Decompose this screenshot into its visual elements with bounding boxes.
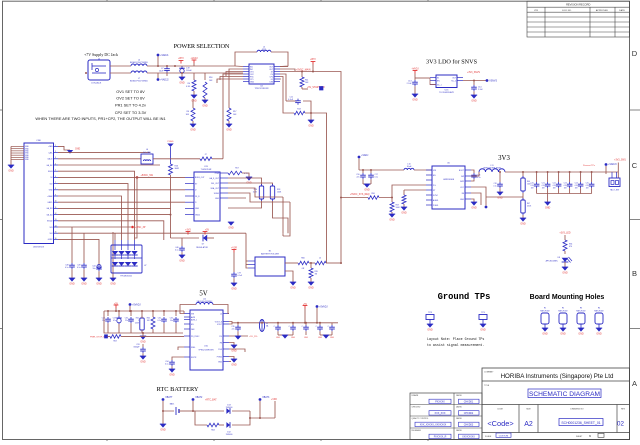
svg-text:C13: C13 [408,81,411,83]
svg-text:DEF: DEF [191,329,195,331]
svg-text:C17: C17 [375,174,378,176]
svg-text:10u: 10u [170,320,173,322]
svg-text:PR1 SET TO 4.2v: PR1 SET TO 4.2v [115,102,146,107]
svg-text:SDA_OUT: SDA_OUT [211,187,220,190]
svg-text:0.1u: 0.1u [493,185,496,187]
svg-text:SCH0001236_SHEET_01: SCH0001236_SHEET_01 [561,421,600,425]
svg-text:GND: GND [308,287,314,290]
svg-text:C: C [632,161,638,170]
svg-text:OUT: OUT [452,77,457,79]
svg-text:WHEN THERE ARE TWO INPUTS, PR1: WHEN THERE ARE TWO INPUTS, PR1+CP2, THE … [35,116,165,121]
svg-text:GA_ID2: GA_ID2 [46,164,52,167]
svg-text:10uH: 10uH [407,166,412,168]
svg-text:C21: C21 [542,183,545,185]
svg-text:0.1uF: 0.1uF [288,99,294,101]
svg-text:TPD4E05U06: TPD4E05U06 [120,276,132,278]
svg-text:C44: C44 [92,266,95,268]
svg-text:2.2uF: 2.2uF [478,89,484,91]
svg-text:COMPANY: COMPANY [484,370,494,373]
svg-text:BULB_OUT: BULB_OUT [195,177,205,179]
svg-text:+VADJ2: +VADJ2 [160,79,169,82]
svg-text:GND: GND [226,129,232,132]
svg-text:+3V3_LED: +3V3_LED [559,233,571,235]
svg-text:CN6: CN6 [36,140,41,142]
svg-text:0.1u: 0.1u [175,250,179,252]
svg-text:VIN: VIN [191,313,195,315]
svg-text:SCHEMATIC DIAGRAM: SCHEMATIC DIAGRAM [529,391,600,398]
svg-text:LTR: LTR [534,10,538,12]
svg-text:F2: F2 [266,323,268,325]
svg-text:J5: J5 [319,258,321,260]
svg-text:15: 15 [55,232,57,234]
svg-text:GND: GND [304,337,309,339]
svg-text:GND: GND [228,227,234,230]
svg-text:+B7V: +B7V [178,58,184,60]
svg-text:DRAWN: DRAWN [412,394,419,397]
svg-text:C16: C16 [356,174,359,176]
svg-text:L2: L2 [220,313,222,315]
svg-text:IN: IN [437,77,439,79]
svg-text:+CAN: +CAN [48,145,53,148]
svg-text:RELEASED: RELEASED [412,429,422,432]
svg-text:16V: 16V [575,187,579,189]
svg-text:R11: R11 [305,80,308,82]
svg-text:VOUT: VOUT [217,324,223,326]
svg-text:GND: GND [231,350,237,353]
svg-text:GND: GND [412,99,418,102]
svg-text:VBAT2: VBAT2 [195,396,203,399]
svg-text:HORIBA Instruments (Singapore): HORIBA Instruments (Singapore) Pte Ltd [501,373,614,380]
svg-text:LMR33630B: LMR33630B [443,179,455,181]
svg-text:3A: 3A [266,325,269,328]
svg-text:FB: FB [220,342,223,344]
svg-text:+RNC_3P: +RNC_3P [135,227,146,229]
svg-text:2: 2 [55,151,56,153]
svg-text:XXX_XXX: XXX_XXX [435,412,446,415]
svg-text:GND: GND [231,288,237,291]
svg-text:GND: GND [231,364,237,367]
svg-text:SIZE: SIZE [526,409,531,411]
svg-text:FSEL: FSEL [191,347,196,349]
svg-text:GND: GND [169,374,175,377]
svg-text:+5V: +5V [205,230,210,232]
svg-text:DATED: DATED [456,417,463,420]
svg-text:+5VDC_SW: +5VDC_SW [141,175,154,177]
svg-text:L6: L6 [146,149,149,151]
svg-text:J7: J7 [204,154,207,156]
svg-text:10K: 10K [147,320,151,322]
svg-text:C33: C33 [136,344,139,346]
svg-text:GND: GND [596,333,602,336]
svg-text:GND: GND [250,81,255,83]
svg-text:SW2: SW2 [460,181,464,183]
svg-text:+VADJ: +VADJ [411,68,418,71]
svg-text:BLM41PG471SN1D: BLM41PG471SN1D [130,62,148,64]
svg-text:+CAN2: +CAN2 [47,195,53,198]
svg-text:100K: 100K [396,207,401,209]
svg-text:16V: 16V [564,187,568,189]
svg-text:C11: C11 [290,97,293,99]
svg-text:16V: 16V [531,187,535,189]
svg-text:EN: EN [437,80,440,82]
svg-text:DATED: DATED [456,394,463,397]
svg-text:JXB74XXXX: JXB74XXXX [33,247,45,249]
svg-text:D12: D12 [227,432,230,434]
svg-text:R6: R6 [187,111,189,113]
svg-text:4.7u: 4.7u [541,185,544,187]
svg-text:D1_S: D1_S [195,196,200,198]
svg-text:GA_ID: GA_ID [47,158,53,161]
svg-text:C18: C18 [494,183,497,185]
svg-text:CHECKED: CHECKED [412,407,421,409]
svg-text:3V3 LDO for SNVS: 3V3 LDO for SNVS [426,59,478,66]
svg-text:VBATT: VBATT [165,396,173,399]
svg-text:CON-JACK: CON-JACK [91,82,102,85]
svg-text:GND: GND [542,333,548,336]
svg-text:1SS400: 1SS400 [226,407,233,409]
svg-text:R64: R64 [211,430,214,432]
svg-text:ST: ST [195,183,198,185]
svg-text:100uF: 100uF [186,70,192,72]
svg-text:0.6W: 0.6W [135,323,139,325]
svg-text:0.1u: 0.1u [477,177,481,179]
svg-text:TITLE: TITLE [484,385,490,387]
svg-text:C14: C14 [478,87,481,89]
svg-text:GND: GND [318,337,323,339]
svg-text:GND: GND [471,100,477,103]
svg-text:CAN2-: CAN2- [47,201,53,204]
svg-text:R67: R67 [527,203,530,205]
svg-text:D8: D8 [558,257,560,259]
svg-text:R66: R66 [527,181,530,183]
svg-text:C20: C20 [531,183,534,185]
svg-text:RTC BATTERY: RTC BATTERY [156,386,198,393]
svg-text:GND: GND [427,329,433,332]
svg-text:TLV70433DBVR: TLV70433DBVR [439,92,454,94]
svg-text:U10: U10 [204,346,209,348]
svg-text:SS/TR: SS/TR [191,357,197,359]
svg-text:0R: 0R [302,268,305,270]
svg-text:QUALITY CONTROL: QUALITY CONTROL [412,417,429,420]
svg-text:+5V_PG: +5V_PG [249,336,258,338]
svg-text:REV: REV [621,409,626,411]
svg-text:GND: GND [520,223,526,226]
svg-text:B: B [632,269,637,278]
svg-text:470: 470 [569,246,572,248]
svg-text:AVIN_1: AVIN_1 [191,318,197,321]
svg-text:Board Mounting Holes: Board Mounting Holes [530,294,605,301]
svg-text:+7V Supply DC Jack: +7V Supply DC Jack [84,52,118,57]
svg-text:300R: 300R [175,168,180,170]
svg-text:L10: L10 [407,164,410,166]
svg-text:GND: GND [25,159,30,161]
svg-text:3300pF: 3300pF [133,347,140,349]
svg-text:CUSTOM: CUSTOM [499,435,509,437]
svg-text:GND2: GND2 [48,239,53,241]
svg-text:R16: R16 [209,77,212,79]
svg-text:C49: C49 [77,265,80,267]
svg-text:1: 1 [55,145,56,147]
svg-text:R59: R59 [396,205,399,207]
svg-text:XAL5030-222MEC: XAL5030-222MEC [197,300,213,303]
svg-text:C23: C23 [564,183,567,185]
svg-text:TPS2121RUXR: TPS2121RUXR [254,88,269,90]
svg-text:SGND: SGND [214,193,220,195]
svg-text:C34: C34 [165,361,168,363]
svg-text:RT: RT [433,190,436,192]
svg-text:GND: GND [276,337,281,339]
svg-text:CHKD03: CHKD03 [464,424,474,427]
svg-text:16V: 16V [553,187,557,189]
svg-text:POW: POW [215,173,220,175]
svg-text:10u: 10u [93,268,96,270]
svg-text:22u: 22u [357,177,360,179]
svg-text:GND: GND [215,198,220,200]
svg-text:XXXXXXXX: XXXXXXXX [462,436,475,439]
svg-text:02: 02 [617,421,624,428]
svg-text:Present TPs: Present TPs [583,164,596,167]
svg-text:+VADJ1: +VADJ1 [160,54,169,57]
svg-text:GND: GND [389,219,395,222]
svg-text:10uF: 10uF [159,71,164,73]
svg-text:5V3: 5V3 [49,227,52,229]
svg-text:R17: R17 [233,111,236,113]
svg-text:+5VDC_MAIN: +5VDC_MAIN [296,68,311,71]
svg-text:D7: D7 [202,244,204,246]
svg-text:10K: 10K [233,114,237,116]
svg-text:DC CAN: DC CAN [143,151,151,154]
svg-text:DATE: DATE [619,9,625,12]
svg-text:TP9: TP9 [481,312,486,314]
svg-text:A: A [632,379,637,388]
svg-text:H1: H1 [544,308,546,310]
svg-text:L4: L4 [138,60,141,62]
svg-text:R34: R34 [569,244,572,246]
svg-text:10K: 10K [209,80,213,82]
svg-text:PG: PG [219,336,222,338]
svg-text:GND: GND [140,361,146,364]
svg-text:PGND: PGND [433,205,439,207]
svg-text:3V3: 3V3 [498,155,510,162]
svg-text:5: 5 [55,170,56,172]
svg-text:EN: EN [191,324,194,326]
svg-text:5V: 5V [50,177,53,179]
svg-text:+5VADJ: +5VADJ [319,306,327,309]
svg-text:I2: I2 [195,190,197,192]
svg-text:GND: GND [179,260,185,263]
svg-text:REGULATOR: REGULATOR [196,246,208,249]
svg-text:C79: C79 [238,273,241,275]
svg-text:+B7V: +B7V [310,59,316,61]
svg-text:U16: U16 [445,90,450,92]
svg-text:VBAT3: VBAT3 [262,396,270,399]
svg-text:10K: 10K [186,114,190,116]
svg-text:16V: 16V [586,187,590,189]
svg-text:MNT-HOLE: MNT-HOLE [558,310,568,312]
svg-text:+RTC_BAT: +RTC_BAT [205,399,217,402]
svg-text:GND: GND [401,212,407,215]
svg-text:10K: 10K [305,82,309,84]
svg-text:R63: R63 [113,341,116,343]
svg-text:4.7u: 4.7u [585,185,588,187]
svg-text:OV2 SET TO 6V: OV2 SET TO 6V [116,96,145,101]
svg-text:+VADJ: +VADJ [361,154,368,157]
svg-text:13: 13 [55,219,57,221]
svg-text:GND: GND [49,190,54,192]
svg-text:16: 16 [55,238,57,240]
svg-text:GND: GND [96,283,102,286]
svg-text:GND: GND [480,329,486,332]
svg-text:Layout Note: Place Ground TPs: Layout Note: Place Ground TPs [427,337,484,341]
svg-text:H4: H4 [598,308,600,310]
svg-text:Ground TPs: Ground TPs [438,292,491,302]
svg-text:SHEET: SHEET [576,436,583,438]
svg-text:PXXXXX: PXXXXX [435,401,445,404]
svg-text:GND: GND [190,129,196,132]
svg-text:GND: GND [460,199,465,201]
svg-text:VSNVS: VSNVS [489,81,497,83]
svg-text:POWER SELECTION: POWER SELECTION [174,43,230,50]
svg-text:GND2: GND2 [195,214,200,216]
svg-text:+3V3: +3V3 [185,230,191,232]
svg-text:GND: GND [202,105,208,108]
svg-text:GND: GND [290,287,296,290]
svg-text:2.2uF: 2.2uF [407,83,413,85]
svg-text:CHKD01: CHKD01 [464,401,474,404]
svg-text:GND: GND [110,283,116,286]
svg-text:U7: U7 [144,265,146,267]
svg-text:SIG-B: SIG-B [48,171,53,173]
svg-text:22u: 22u [232,329,235,331]
svg-text:4.7u: 4.7u [552,185,555,187]
svg-text:BOOT: BOOT [459,170,465,172]
svg-text:OV1 SET TO 8V: OV1 SET TO 8V [116,89,145,94]
svg-text:R60: R60 [301,258,304,260]
svg-text:+5V: +5V [114,303,119,305]
svg-text:PGF: PGF [218,349,223,351]
svg-text:REVISION RECORD: REVISION RECORD [566,3,590,7]
svg-text:9: 9 [55,194,56,196]
svg-text:9: 9 [589,434,591,438]
svg-text:to assist signal measurement.: to assist signal measurement. [427,343,484,347]
svg-text:I1: I1 [195,202,197,204]
svg-text:BLM41PG471SN1D: BLM41PG471SN1D [130,81,148,83]
svg-text:4.3K: 4.3K [186,86,191,88]
svg-text:VIN: VIN [433,170,437,172]
svg-text:C46: C46 [175,247,178,249]
svg-text:GND: GND [578,333,584,336]
svg-text:L5: L5 [263,47,266,49]
svg-text:D: D [632,49,638,58]
svg-text:0.1uF: 0.1uF [238,275,243,277]
svg-text:C48: C48 [65,265,68,267]
svg-text:MNT-HOLE: MNT-HOLE [576,310,586,312]
svg-text:SW: SW [461,176,464,178]
svg-text:+3V3_SNVS: +3V3_SNVS [467,72,480,74]
svg-text:U6: U6 [447,163,450,165]
svg-text:GND: GND [191,100,197,103]
svg-text:R57: R57 [235,168,238,170]
svg-text:5V2: 5V2 [49,183,52,185]
svg-text:GND: GND [471,207,477,210]
svg-text:L7: L7 [138,78,141,80]
svg-text:APT-N2006EC: APT-N2006EC [546,259,559,262]
svg-text:4.7u: 4.7u [530,185,533,187]
svg-text:PS_SYNC: PS_SYNC [191,336,200,338]
svg-text:+5VDC_SYS_REQ: +5VDC_SYS_REQ [350,194,370,196]
svg-text:GND: GND [330,337,335,339]
svg-text:C22: C22 [553,183,556,185]
svg-text:FB: FB [462,193,465,195]
svg-text:GND: GND [140,341,146,344]
svg-text:H2: H2 [562,308,564,310]
svg-text:3: 3 [55,157,56,159]
svg-text:GND: GND [291,337,296,339]
svg-text:NC_1: NC_1 [437,84,442,86]
svg-text:R58: R58 [371,193,374,195]
svg-text:CP2 SET TO 3.3V: CP2 SET TO 3.3V [115,110,147,115]
svg-text:5V: 5V [199,291,207,298]
svg-text:BAT1: BAT1 [170,403,175,406]
svg-text:+V3R: +V3R [231,248,237,250]
svg-text:1M: 1M [315,274,318,276]
svg-text:GND: GND [8,170,14,173]
svg-text:GND: GND [160,429,166,432]
svg-text:GA_ID4: GA_ID4 [46,213,52,216]
svg-text:R13: R13 [297,109,300,111]
svg-text:14: 14 [55,225,57,227]
svg-text:SIG_OUT: SIG_OUT [211,183,220,185]
svg-text:PGND: PGND [217,356,223,358]
svg-text:22u: 22u [125,320,128,322]
svg-text:10: 10 [55,201,57,203]
svg-text:GND: GND [69,283,75,286]
svg-text:GND: GND [75,149,80,151]
svg-text:XXX_XXXXX_XXXXXXX: XXX_XXXXX_XXXXXXX [420,424,447,427]
svg-text:R56: R56 [175,166,178,168]
svg-text:PXXXXX_R: PXXXXX_R [434,436,447,439]
svg-text:MNT-HOLE: MNT-HOLE [540,310,550,312]
svg-text:GND: GND [560,333,566,336]
svg-text:SYNC: SYNC [433,195,439,197]
svg-text:ECO NO.: ECO NO. [562,10,572,12]
svg-text:GA_ID3: GA_ID3 [46,207,52,210]
svg-text:7: 7 [55,182,56,184]
svg-text:HA_S_OUT: HA_S_OUT [210,177,220,180]
svg-text:GND: GND [562,272,568,275]
svg-text:6: 6 [55,176,56,178]
svg-text:GND: GND [81,283,87,286]
svg-text:R4: R4 [188,83,190,85]
svg-text:SRP5030TFA-2R2M: SRP5030TFA-2R2M [483,166,501,169]
svg-text:GND: GND [308,125,314,128]
svg-text:C25: C25 [586,183,589,185]
svg-text:+V3R: +V3R [271,399,277,401]
svg-text:C24: C24 [575,183,578,185]
svg-text:AGND: AGND [433,199,439,202]
svg-text:L12: L12 [203,299,206,301]
svg-text:CHKD02: CHKD02 [464,412,474,415]
svg-text:VCC: VCC [460,187,464,189]
svg-text:GND: GND [545,207,551,210]
svg-text:D13: D13 [227,405,230,407]
svg-text:A2: A2 [524,421,533,428]
svg-text:5V4: 5V4 [49,233,52,235]
svg-text:GND: GND [218,361,223,363]
svg-text:TL4242D4R: TL4242D4R [201,169,212,171]
svg-text:<Code>: <Code> [487,419,513,428]
svg-text:0.1u: 0.1u [65,267,69,269]
